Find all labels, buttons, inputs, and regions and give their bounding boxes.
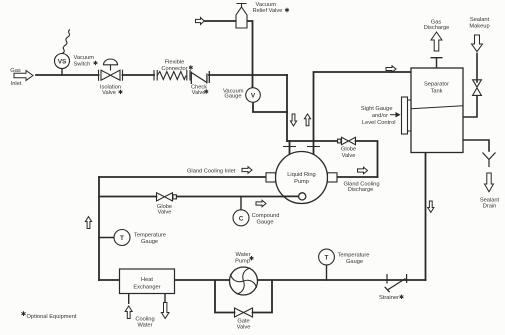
star: strainer xyxy=(400,295,404,299)
water pump xyxy=(230,267,258,295)
flow arrow: up (discharge riser) xyxy=(304,114,310,126)
svg-text:Vacuum: Vacuum xyxy=(74,55,95,61)
svg-text:Temperature: Temperature xyxy=(338,253,370,259)
svg-text:Separator: Separator xyxy=(424,82,449,88)
flow arrow: sealant makeup xyxy=(472,35,483,52)
temperature gauge T (left) xyxy=(114,230,130,246)
svg-text:Flexible: Flexible xyxy=(165,60,185,66)
wire: pump suction header xyxy=(287,141,378,177)
wire: pump nozzles xyxy=(290,141,314,155)
svg-text:Gas: Gas xyxy=(10,68,21,74)
star: vacuum switch xyxy=(94,61,98,65)
svg-text:Water: Water xyxy=(138,322,153,328)
wire: left temperature gauge stub xyxy=(99,237,114,239)
wire: pump gland discharge line xyxy=(337,176,378,178)
wire: discharge riser to separator xyxy=(314,72,412,141)
temperature gauge T (right) xyxy=(319,249,335,265)
gas discharge stub xyxy=(431,58,443,68)
wire: inlet downcomer to pump xyxy=(286,75,288,141)
svg-text:Vacuum: Vacuum xyxy=(256,2,277,8)
wire: vacuum switch stub xyxy=(61,69,63,76)
svg-text:and/or: and/or xyxy=(372,113,388,119)
sealant makeup check valve xyxy=(473,80,482,96)
svg-text:Exchanger: Exchanger xyxy=(133,284,160,290)
svg-text:Sight Gauge: Sight Gauge xyxy=(361,106,393,112)
wire: left loop vertical xyxy=(98,177,100,280)
isolation valve xyxy=(99,59,123,81)
svg-text:Pump: Pump xyxy=(235,258,250,264)
wire: vacuum gauge loop xyxy=(253,75,288,112)
svg-text:Valve: Valve xyxy=(192,90,206,96)
star: check valve xyxy=(204,89,208,93)
flow arrow: gland cooling inlet xyxy=(242,167,252,174)
wire: sealant drain line xyxy=(463,140,489,151)
wire: main gas inlet line xyxy=(36,74,287,76)
flow arrow: vacuum relief inlet xyxy=(196,18,205,25)
flow arrow: down (inlet downcomer) xyxy=(290,114,296,126)
svg-text:VS: VS xyxy=(58,58,67,65)
flow arrow: separator bottom return xyxy=(428,201,434,212)
flow arrow: gland cooling discharge xyxy=(358,167,368,174)
wire: compound gauge stub xyxy=(240,197,242,210)
svg-text:C: C xyxy=(239,215,244,222)
flow arrow: sealant drain xyxy=(485,173,494,192)
svg-text:Sealant: Sealant xyxy=(480,197,500,203)
flow arrow: pump drain line xyxy=(256,200,266,207)
separator tank xyxy=(411,68,463,153)
svg-text:Relief Valve: Relief Valve xyxy=(253,8,283,14)
svg-text:Water: Water xyxy=(236,252,251,258)
flow arrow: left loop up xyxy=(85,217,91,229)
svg-text:Sealant: Sealant xyxy=(470,17,490,23)
svg-text:Gland Cooling Inlet: Gland Cooling Inlet xyxy=(187,169,236,175)
svg-text:T: T xyxy=(325,255,329,262)
svg-text:Drain: Drain xyxy=(483,204,497,210)
heat exchanger xyxy=(120,269,175,304)
star: vacuum relief valve xyxy=(285,8,289,12)
check valve xyxy=(191,71,209,84)
svg-text:Gauge: Gauge xyxy=(224,94,241,100)
vacuum switch VS xyxy=(55,29,70,68)
globe valve (pump discharge) xyxy=(338,137,356,144)
svg-text:Globe: Globe xyxy=(341,147,356,153)
compound gauge C xyxy=(233,210,249,226)
flexible connector xyxy=(154,70,190,81)
svg-text:Valve: Valve xyxy=(102,90,116,96)
svg-text:Liquid Ring: Liquid Ring xyxy=(287,172,315,178)
wire: separator bottom return line xyxy=(425,153,427,281)
svg-text:V: V xyxy=(251,93,256,100)
wire: lower globe valve line to pump drain xyxy=(99,196,299,198)
svg-text:Pump: Pump xyxy=(294,179,309,185)
flow arrow: to separator xyxy=(386,66,396,72)
svg-text:Gauge: Gauge xyxy=(346,259,363,265)
wire: bottom cooling water line xyxy=(99,279,426,281)
svg-text:Gauge: Gauge xyxy=(256,219,273,225)
vacuum relief valve xyxy=(236,4,247,29)
flow arrow: gas discharge xyxy=(431,32,442,51)
wire: right temperature gauge stub xyxy=(326,265,328,280)
svg-text:Gauge: Gauge xyxy=(141,239,158,245)
svg-text:Valve: Valve xyxy=(237,324,251,330)
liquid ring pump xyxy=(266,147,337,204)
flow arrow: cooling water out xyxy=(161,303,169,319)
sealant drain funnel xyxy=(483,153,496,168)
svg-text:Valve: Valve xyxy=(342,153,356,159)
svg-text:Heat: Heat xyxy=(141,277,153,283)
svg-text:Switch: Switch xyxy=(74,62,91,68)
wire: gland cooling inlet line xyxy=(99,176,266,178)
strainer xyxy=(385,274,407,292)
svg-text:Temperature: Temperature xyxy=(134,233,166,239)
star: flexible connector xyxy=(189,65,193,69)
wire: water pump bypass xyxy=(215,281,272,313)
wire: sealant makeup line xyxy=(463,54,477,118)
svg-text:Inlet: Inlet xyxy=(11,81,22,87)
svg-text:Strainer: Strainer xyxy=(379,295,399,301)
svg-text:Discharge: Discharge xyxy=(348,187,374,193)
svg-text:Level Control: Level Control xyxy=(362,120,396,126)
vacuum gauge V xyxy=(246,88,261,103)
svg-text:Connector: Connector xyxy=(161,66,187,72)
svg-text:Valve: Valve xyxy=(158,210,172,216)
gate valve xyxy=(235,308,253,317)
star: optional equipment footnote xyxy=(21,311,25,316)
svg-text:Optional Equipment: Optional Equipment xyxy=(27,314,77,320)
star: isolation valve xyxy=(119,90,123,94)
flow arrow: cooling water in xyxy=(125,306,132,319)
svg-text:Makeup: Makeup xyxy=(469,23,489,29)
globe valve (gland cooling) xyxy=(157,193,177,201)
star: water pump xyxy=(250,256,254,260)
sight gauge xyxy=(402,97,412,134)
svg-text:Discharge: Discharge xyxy=(424,25,450,31)
svg-text:Tank: Tank xyxy=(430,89,442,95)
svg-text:T: T xyxy=(120,235,124,242)
flow arrow: gas inlet xyxy=(14,71,33,81)
wire: vacuum relief branch xyxy=(205,21,253,75)
svg-text:Compound: Compound xyxy=(252,213,280,219)
